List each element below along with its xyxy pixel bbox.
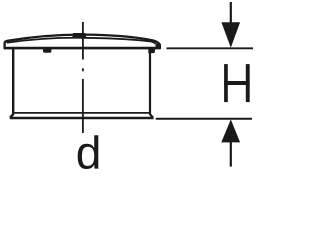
- bottom arrow shaft: [230, 142, 232, 167]
- label H (drawn) left stem: [224, 64, 228, 102]
- top arrow shaft: [230, 2, 232, 24]
- label H right stem: [246, 64, 250, 102]
- top arrowhead (down): [221, 22, 240, 47]
- small tab under flange left: [43, 48, 51, 53]
- right shoulder step: [148, 48, 155, 53]
- cap flange outline (top lens, left edge, right edge): [5, 35, 160, 49]
- bottom arrowhead (up): [221, 119, 240, 142]
- outer bottom line of cap: [10, 117, 154, 120]
- right corner thickening: [155, 43, 161, 49]
- right body wall with bottom flare: [150, 53, 153, 118]
- centerline dash top: [82, 22, 84, 60]
- bottom extension line: [156, 118, 252, 120]
- top extension line: [167, 47, 254, 49]
- cap flange inner arc (top face edge): [8, 38, 156, 44]
- cap flange bottom line: [5, 47, 160, 50]
- label H crossbar: [224, 81, 250, 85]
- center boss on cap top: [73, 33, 87, 39]
- inner bottom line of cap: [14, 112, 149, 114]
- left body wall with bottom flare: [10, 49, 13, 118]
- centerline dot: [82, 68, 84, 71]
- centerline dash bottom: [82, 79, 84, 133]
- label d: [78, 135, 99, 169]
